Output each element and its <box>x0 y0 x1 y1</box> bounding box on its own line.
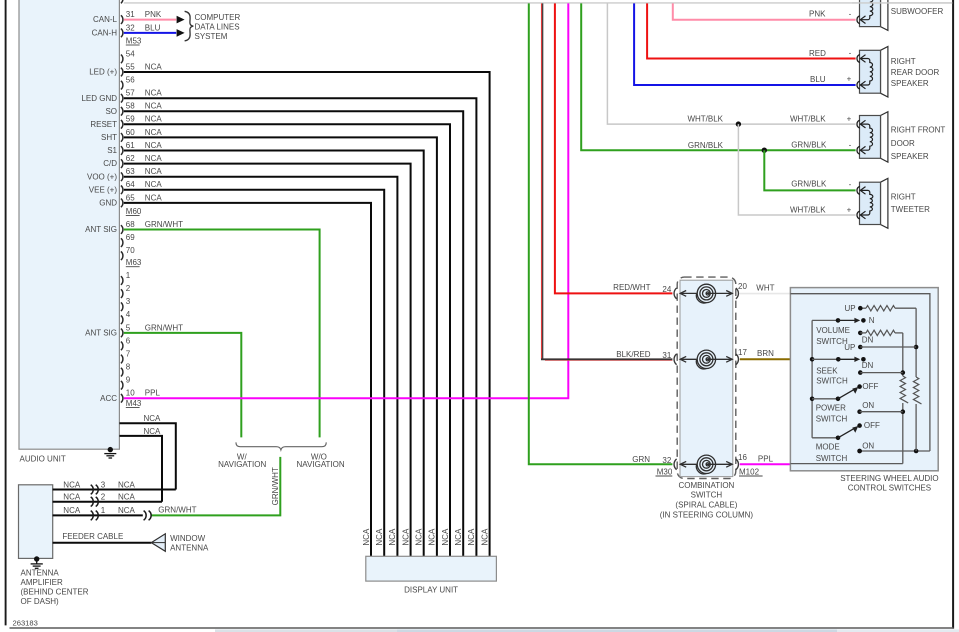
wire pin61 NCA to display unit <box>124 151 424 557</box>
pin 61 S1 <box>121 146 123 155</box>
pin 55 LED (+) <box>121 68 123 77</box>
svg-text:4: 4 <box>126 310 131 319</box>
right rear door speaker <box>881 47 888 98</box>
svg-text:ANT SIG: ANT SIG <box>85 225 117 234</box>
junction WHT/BLK <box>736 121 741 126</box>
svg-text:MODE: MODE <box>816 443 840 452</box>
svg-text:NCA: NCA <box>428 528 437 546</box>
wire pin64 NCA to display unit <box>124 190 384 557</box>
svg-text:GRN/BLK: GRN/BLK <box>791 141 827 150</box>
brace W// W/O navigation <box>236 442 326 449</box>
svg-text:DN: DN <box>862 361 874 370</box>
wire RED/WHT to combination switch <box>555 3 673 293</box>
wire pin5 GRN/WHT to W/ navigation <box>124 333 242 438</box>
antenna pin 1 row <box>53 514 143 516</box>
svg-text:BLK/RED: BLK/RED <box>616 350 650 359</box>
svg-text:56: 56 <box>126 76 135 85</box>
svg-text:2: 2 <box>101 493 106 502</box>
svg-text:NCA: NCA <box>145 115 163 124</box>
svg-text:5: 5 <box>126 323 131 332</box>
svg-text:54: 54 <box>126 49 135 58</box>
pin 7 <box>121 355 123 364</box>
svg-text:ACC: ACC <box>100 394 117 403</box>
wire pin57 NCA to display unit <box>124 98 477 556</box>
svg-text:M53: M53 <box>126 36 142 45</box>
svg-text:SWITCH: SWITCH <box>816 377 848 386</box>
svg-text:263183: 263183 <box>13 619 38 628</box>
pin 3 <box>121 302 123 311</box>
svg-text:DATA LINES: DATA LINES <box>195 22 240 31</box>
svg-text:FEEDER CABLE: FEEDER CABLE <box>62 532 123 541</box>
wire pin10 ACC PPL <box>124 3 569 398</box>
svg-text:M60: M60 <box>126 207 142 216</box>
svg-text:68: 68 <box>126 220 135 229</box>
wire pin59 NCA to display unit <box>124 124 450 556</box>
wire seek DN row <box>858 370 863 375</box>
svg-text:DOOR: DOOR <box>891 139 915 148</box>
svg-text:57: 57 <box>126 89 135 98</box>
wire BRN <box>740 358 791 360</box>
svg-text:VEE (+): VEE (+) <box>89 185 118 194</box>
pin 8 <box>121 368 123 377</box>
wire GRN vertical to combination switch <box>529 3 673 464</box>
svg-text:ANTENNA: ANTENNA <box>170 543 209 552</box>
wire pin58 NCA to display unit <box>124 111 463 556</box>
svg-text:RIGHT FRONT: RIGHT FRONT <box>891 126 946 135</box>
wire GRN/WHT from navigation brace to antenna pin1 <box>151 457 280 516</box>
svg-text:70: 70 <box>126 246 135 255</box>
svg-text:DN: DN <box>862 336 874 345</box>
window antenna symbol <box>151 534 165 552</box>
svg-text:10: 10 <box>126 389 135 398</box>
svg-text:-: - <box>849 180 852 189</box>
pin 6 <box>121 342 123 351</box>
svg-text:AMPLIFIER: AMPLIFIER <box>21 578 63 587</box>
svg-text:PNK: PNK <box>145 10 162 19</box>
svg-text:PPL: PPL <box>145 389 161 398</box>
svg-text:LED (+): LED (+) <box>89 68 117 77</box>
pin 10 <box>121 394 123 403</box>
svg-text:POWER: POWER <box>816 404 846 413</box>
arrow to computer data lines (pin31) <box>177 16 185 24</box>
svg-text:NCA: NCA <box>145 62 163 71</box>
pin 1 <box>121 276 123 285</box>
svg-text:WHT/BLK: WHT/BLK <box>790 114 826 123</box>
svg-text:DISPLAY UNIT: DISPLAY UNIT <box>404 586 458 595</box>
svg-text:RESET: RESET <box>90 120 117 129</box>
wire RED to right rear door speaker <box>647 3 856 58</box>
svg-text:+: + <box>847 114 852 123</box>
svg-text:TWEETER: TWEETER <box>891 205 930 214</box>
wire pin30 WHT/BLK horizontal <box>124 2 952 4</box>
wire pin62 NCA to display unit <box>124 164 411 557</box>
svg-text:COMPUTER: COMPUTER <box>195 13 241 22</box>
svg-text:64: 64 <box>126 180 135 189</box>
svg-text:NCA: NCA <box>144 427 162 436</box>
svg-text:GRN/WHT: GRN/WHT <box>271 467 280 505</box>
steering bus vertical <box>811 320 813 437</box>
svg-text:8: 8 <box>126 363 131 372</box>
svg-text:NCA: NCA <box>63 506 81 515</box>
svg-text:ON: ON <box>862 401 874 410</box>
svg-text:59: 59 <box>126 115 135 124</box>
pin 63 VOO (+) <box>121 172 123 181</box>
display unit box <box>366 556 497 581</box>
svg-text:N: N <box>869 316 875 325</box>
svg-text:RIGHT: RIGHT <box>891 57 916 66</box>
svg-text:S1: S1 <box>107 146 117 155</box>
svg-text:SHT: SHT <box>101 133 117 142</box>
svg-text:31: 31 <box>126 10 135 19</box>
svg-text:NCA: NCA <box>118 506 136 515</box>
wire WHT/BLK top over subwoofer <box>852 2 952 4</box>
wire pin60 NCA to display unit <box>124 137 437 556</box>
svg-text:(SPIRAL CABLE): (SPIRAL CABLE) <box>675 501 737 510</box>
wire PPL <box>740 463 791 465</box>
wire BLK/RED vertical to combination switch <box>541 3 543 359</box>
power switch lever <box>812 398 838 400</box>
svg-text:1: 1 <box>101 506 106 515</box>
wire mode ON row <box>860 450 930 452</box>
svg-text:SWITCH: SWITCH <box>816 337 848 346</box>
pin 30 bracket (cut at top) <box>121 0 123 3</box>
svg-text:VOO (+): VOO (+) <box>87 172 117 181</box>
svg-text:CAN-L: CAN-L <box>93 15 118 24</box>
svg-text:24: 24 <box>662 285 671 294</box>
wire pin55 NCA to display unit <box>124 72 490 556</box>
svg-text:BLU: BLU <box>810 75 826 84</box>
pin 54 <box>121 55 123 64</box>
page border left <box>5 0 7 625</box>
svg-text:NCA: NCA <box>145 89 163 98</box>
wire PPL internal bottom <box>790 463 902 465</box>
svg-text:NCA: NCA <box>145 193 163 202</box>
svg-text:PPL: PPL <box>758 455 774 464</box>
svg-text:C/D: C/D <box>103 159 117 168</box>
svg-text:GRN/WHT: GRN/WHT <box>145 323 183 332</box>
svg-text:M43: M43 <box>126 399 142 408</box>
pin 5 <box>121 329 123 338</box>
page border bottom <box>10 627 954 629</box>
svg-text:GRN/BLK: GRN/BLK <box>688 141 724 150</box>
svg-text:NCA: NCA <box>415 528 424 546</box>
svg-text:NCA: NCA <box>388 528 397 546</box>
antenna amplifier box <box>19 485 53 559</box>
svg-text:32: 32 <box>662 456 671 465</box>
wire pin65 NCA to display unit <box>124 203 371 557</box>
wire GRN/BLK to right front door speaker <box>581 3 855 150</box>
svg-text:SO: SO <box>105 107 117 116</box>
svg-text:SEEK: SEEK <box>816 367 838 376</box>
wire GRN/BLK to right tweeter <box>764 150 855 190</box>
seek switch arrow <box>812 358 838 360</box>
svg-text:3: 3 <box>101 480 106 489</box>
svg-text:-: - <box>849 141 852 150</box>
svg-text:STEERING WHEEL AUDIO: STEERING WHEEL AUDIO <box>840 474 938 483</box>
spiral cable symbol row 2 <box>697 350 715 368</box>
combination switch inner box <box>680 280 733 476</box>
svg-text:(BEHIND CENTER: (BEHIND CENTER <box>21 588 89 597</box>
pin 65 GND <box>121 199 123 208</box>
svg-text:9: 9 <box>126 376 131 385</box>
svg-text:20: 20 <box>738 282 747 291</box>
svg-text:RED: RED <box>809 49 826 58</box>
svg-text:NCA: NCA <box>362 528 371 546</box>
svg-text:NCA: NCA <box>467 528 476 546</box>
audio unit ground <box>108 447 113 452</box>
svg-text:RED/WHT: RED/WHT <box>613 283 650 292</box>
pin 69 <box>121 238 123 247</box>
wire BLU to right rear door speaker <box>634 3 856 85</box>
svg-text:69: 69 <box>126 233 135 242</box>
svg-text:NCA: NCA <box>454 528 463 546</box>
svg-text:NCA: NCA <box>145 128 163 137</box>
svg-text:31: 31 <box>662 351 671 360</box>
svg-text:GND: GND <box>99 199 117 208</box>
svg-text:NCA: NCA <box>401 528 410 546</box>
svg-text:REAR DOOR: REAR DOOR <box>891 68 940 77</box>
svg-text:CONTROL SWITCHES: CONTROL SWITCHES <box>848 484 931 493</box>
wire pin63 NCA to display unit <box>124 177 398 557</box>
svg-text:SWITCH: SWITCH <box>816 454 848 463</box>
svg-text:SWITCH: SWITCH <box>691 491 723 500</box>
pin 2 <box>121 289 123 298</box>
resistor volume UP <box>860 307 866 309</box>
pin 60 SHT <box>121 133 123 142</box>
svg-text:BLU: BLU <box>145 23 161 32</box>
svg-text:16: 16 <box>738 453 747 462</box>
antenna pin 3 row <box>53 489 176 491</box>
wire right resistor chain <box>915 308 917 377</box>
svg-text:-: - <box>849 9 852 18</box>
svg-text:NAVIGATION: NAVIGATION <box>297 460 345 469</box>
svg-text:CAN-H: CAN-H <box>92 29 118 38</box>
resistor volume DN <box>858 331 863 336</box>
svg-text:VOLUME: VOLUME <box>816 326 850 335</box>
spiral cable symbol row 1 <box>697 284 715 302</box>
pin 64 VEE (+) <box>121 186 123 195</box>
svg-text:NCA: NCA <box>145 154 163 163</box>
steering wheel switches box <box>790 288 938 471</box>
svg-text:SUBWOOFER: SUBWOOFER <box>891 7 944 16</box>
pin 59 RESET <box>121 120 123 129</box>
wire seek UP row <box>858 345 863 350</box>
pin 62 C/D <box>121 159 123 168</box>
svg-text:NCA: NCA <box>145 102 163 111</box>
wire WHT <box>740 293 791 295</box>
svg-text:SYSTEM: SYSTEM <box>195 32 228 41</box>
antenna amplifier ground <box>34 556 39 561</box>
svg-text:NCA: NCA <box>63 480 81 489</box>
svg-text:PNK: PNK <box>809 10 826 19</box>
svg-text:1: 1 <box>126 271 131 280</box>
svg-text:WHT/BLK: WHT/BLK <box>790 205 826 214</box>
svg-text:ANT SIG: ANT SIG <box>85 329 117 338</box>
mode switch lever <box>812 437 838 439</box>
svg-text:UP: UP <box>844 343 855 352</box>
svg-text:NCA: NCA <box>145 180 163 189</box>
bottom ui strip 2 <box>397 629 837 632</box>
svg-text:SPEAKER: SPEAKER <box>891 152 929 161</box>
spiral cable symbol row 3 <box>697 455 715 473</box>
feeder cable wire <box>53 542 152 544</box>
svg-text:NCA: NCA <box>145 141 163 150</box>
svg-text:7: 7 <box>126 349 131 358</box>
right front door speaker <box>881 112 888 162</box>
wire CAN-H BLU <box>124 32 176 34</box>
pin 57 LED GND <box>121 94 123 103</box>
svg-text:3: 3 <box>126 297 131 306</box>
svg-text:WINDOW: WINDOW <box>170 534 206 543</box>
svg-text:GRN: GRN <box>632 455 650 464</box>
svg-text:61: 61 <box>126 141 135 150</box>
svg-text:M102: M102 <box>739 467 760 476</box>
svg-text:OF DASH): OF DASH) <box>21 597 60 606</box>
svg-text:NCA: NCA <box>441 528 450 546</box>
pin 4 <box>121 316 123 325</box>
wire PNK to subwoofer <box>673 3 856 19</box>
bottom ui strip 1 <box>215 629 397 632</box>
subwoofer speaker <box>881 0 888 30</box>
svg-text:NCA: NCA <box>144 414 162 423</box>
pin 68 ANT SIG <box>121 225 123 234</box>
svg-text:ON: ON <box>862 442 874 451</box>
svg-text:SWITCH: SWITCH <box>816 415 848 424</box>
svg-text:-: - <box>849 48 852 57</box>
svg-text:2: 2 <box>126 284 131 293</box>
svg-text:SPEAKER: SPEAKER <box>891 79 929 88</box>
wire pin68 GRN/WHT to W/O navigation <box>124 230 320 438</box>
svg-text:(IN STEERING COLUMN): (IN STEERING COLUMN) <box>660 511 754 520</box>
bottom ui strip 3 <box>837 629 959 632</box>
pin 31 CAN-L <box>121 15 123 24</box>
pin 58 SO <box>121 107 123 116</box>
svg-text:OFF: OFF <box>864 421 880 430</box>
svg-text:WHT/BLK: WHT/BLK <box>687 115 723 124</box>
svg-text:58: 58 <box>126 102 135 111</box>
svg-text:NAVIGATION: NAVIGATION <box>218 460 266 469</box>
svg-text:ANTENNA: ANTENNA <box>21 568 60 577</box>
svg-text:6: 6 <box>126 336 131 345</box>
svg-text:+: + <box>847 75 852 84</box>
svg-text:M30: M30 <box>657 467 673 476</box>
audio unit box <box>19 0 119 449</box>
wire WHT/BLK to right front door speaker <box>607 3 855 124</box>
svg-text:60: 60 <box>126 128 135 137</box>
svg-text:NCA: NCA <box>480 528 489 546</box>
svg-text:COMBINATION: COMBINATION <box>678 481 734 490</box>
svg-text:NCA: NCA <box>63 493 81 502</box>
page border right <box>952 0 954 629</box>
wire WHT internal top/right <box>790 294 930 451</box>
wire power ON row <box>857 409 862 414</box>
svg-text:NCA: NCA <box>118 493 136 502</box>
svg-text:+: + <box>847 205 852 214</box>
antenna pin 2 row <box>53 501 162 503</box>
svg-text:63: 63 <box>126 167 135 176</box>
svg-text:BRN: BRN <box>757 349 774 358</box>
pin 70 <box>121 251 123 260</box>
svg-text:17: 17 <box>738 348 747 357</box>
svg-text:GRN/WHT: GRN/WHT <box>158 505 196 514</box>
svg-text:UP: UP <box>844 304 855 313</box>
wire left resistor chain <box>902 333 904 376</box>
combination switch dashed box <box>677 277 736 478</box>
svg-text:LED GND: LED GND <box>81 94 117 103</box>
svg-text:32: 32 <box>126 23 135 32</box>
svg-text:55: 55 <box>126 62 135 71</box>
svg-text:65: 65 <box>126 193 135 202</box>
svg-text:RIGHT: RIGHT <box>891 193 916 202</box>
svg-text:WHT: WHT <box>756 283 774 292</box>
right tweeter speaker <box>881 178 888 228</box>
wire CAN-L PNK <box>124 19 176 21</box>
brace computer data lines <box>185 11 194 41</box>
volume switch arrow to N <box>812 319 838 321</box>
svg-text:GRN/BLK: GRN/BLK <box>791 179 827 188</box>
svg-text:NCA: NCA <box>118 480 136 489</box>
wire mode ON dot <box>857 449 862 454</box>
svg-text:GRN/WHT: GRN/WHT <box>145 220 183 229</box>
svg-text:NCA: NCA <box>375 528 384 546</box>
svg-text:AUDIO UNIT: AUDIO UNIT <box>20 454 66 463</box>
pin 32 CAN-H <box>121 29 123 38</box>
pin 56 <box>121 81 123 90</box>
svg-text:OFF: OFF <box>862 382 878 391</box>
svg-text:NCA: NCA <box>145 167 163 176</box>
arrow to computer data lines (pin32) <box>177 29 185 37</box>
junction GRN/BLK <box>762 148 767 153</box>
svg-text:62: 62 <box>126 154 135 163</box>
pin 9 <box>121 381 123 390</box>
wire WHT/BLK to right tweeter <box>738 124 855 215</box>
svg-text:M63: M63 <box>126 258 142 267</box>
